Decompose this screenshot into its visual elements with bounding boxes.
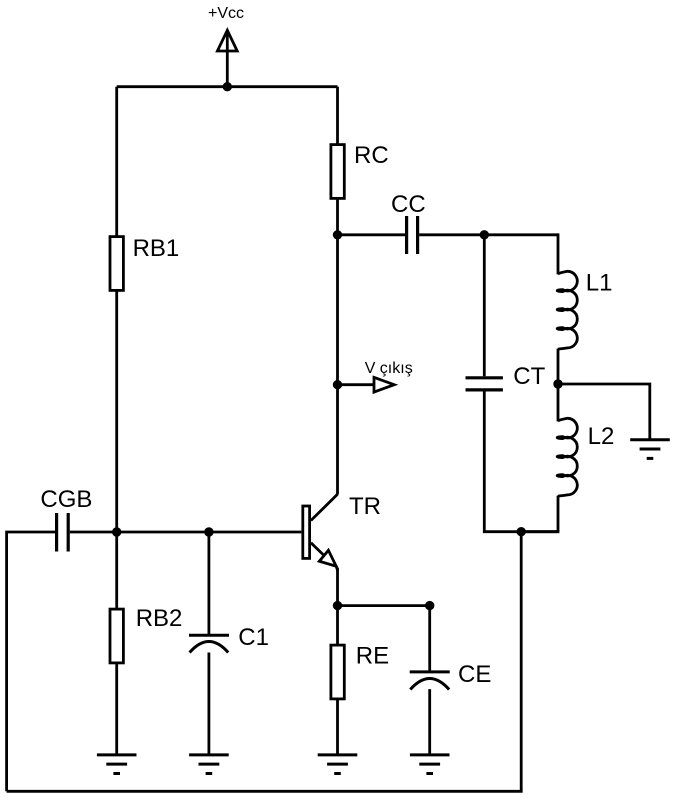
wire L2 bottom to tank bottom rail [557,496,560,532]
svg-text:RC: RC [354,142,389,169]
svg-text:CC: CC [391,191,426,218]
svg-text:CT: CT [513,363,545,390]
node junction at Vcc rail [223,82,232,91]
resistor RB1 [110,237,123,291]
ground C1 [189,755,229,774]
wire tank bottom to bottom rail [520,532,523,792]
ground CE [410,755,450,774]
wire CGB to base rail [70,531,302,534]
resistor RB2 [110,609,123,663]
svg-text:RE: RE [356,642,389,669]
wire left vertical from top rail to RB1 [115,87,118,236]
svg-text:RB2: RB2 [136,605,183,632]
ground right [630,440,670,459]
wire V output [338,383,375,386]
arrow V cikis [374,377,394,392]
resistor RC [331,145,344,199]
resistor RE [331,645,344,699]
ground RB2 [97,755,137,774]
node junction base/RB1/RB2 [112,527,121,536]
transistor TR [303,494,338,571]
node junction tank bottom [517,527,526,536]
wire RE to ground [336,699,339,754]
wire bottom rail [7,790,523,793]
wire L1 bottom to tap [557,349,560,384]
wire RC bottom to collector [336,198,339,494]
wire CT branch vertical top [483,235,486,376]
svg-text:L1: L1 [586,270,613,297]
wire left edge up to CGB [7,532,55,791]
wire RB2 branch [115,532,118,608]
node junction collector / CC [333,230,342,239]
capacitor C1 [189,635,229,652]
wire RB1 bottom to base node [115,290,118,532]
wire tank top to L1 [557,233,560,274]
inductor L1 [557,271,577,349]
wire RE branch [336,606,339,644]
wire tap to ground branch [558,384,650,439]
wire right vertical from top rail to RC [336,87,339,144]
svg-text:+Vcc: +Vcc [208,5,244,22]
capacitor CE [410,672,450,690]
wire tap to L2 [557,384,560,421]
svg-text:CGB: CGB [40,486,92,513]
power +Vcc symbol [217,30,237,86]
svg-text:C1: C1 [238,624,269,651]
wire collector to CC left plate [338,233,406,236]
wire top rail from RB1 top to RC top [117,85,338,88]
capacitor CT [466,378,503,390]
node junction base/C1 [204,527,213,536]
node junction CE [425,601,434,610]
wire CE to ground [428,689,431,753]
node junction emitter [333,601,342,610]
inductor L2 [557,418,577,496]
node junction CT top [480,230,489,239]
capacitor CC [407,216,418,254]
svg-text:TR: TR [349,493,381,520]
ground RE [318,755,358,774]
wire CT bottom to tank bottom rail [484,392,558,532]
node junction tap [553,379,562,388]
wire C1 to ground [207,653,210,754]
wire emitter down [336,568,339,606]
node junction V output tap [333,380,342,389]
svg-text:RB1: RB1 [133,235,180,262]
wire emitter rail [338,604,430,607]
wire RB2 to ground [115,663,118,754]
capacitor CGB [57,513,69,552]
wire CC right plate to tank top [419,233,558,236]
svg-text:L2: L2 [588,423,615,450]
wire C1 branch [207,532,210,635]
wire CE branch [428,606,431,672]
svg-text:V çıkış: V çıkış [365,360,413,377]
svg-text:CE: CE [458,661,491,688]
